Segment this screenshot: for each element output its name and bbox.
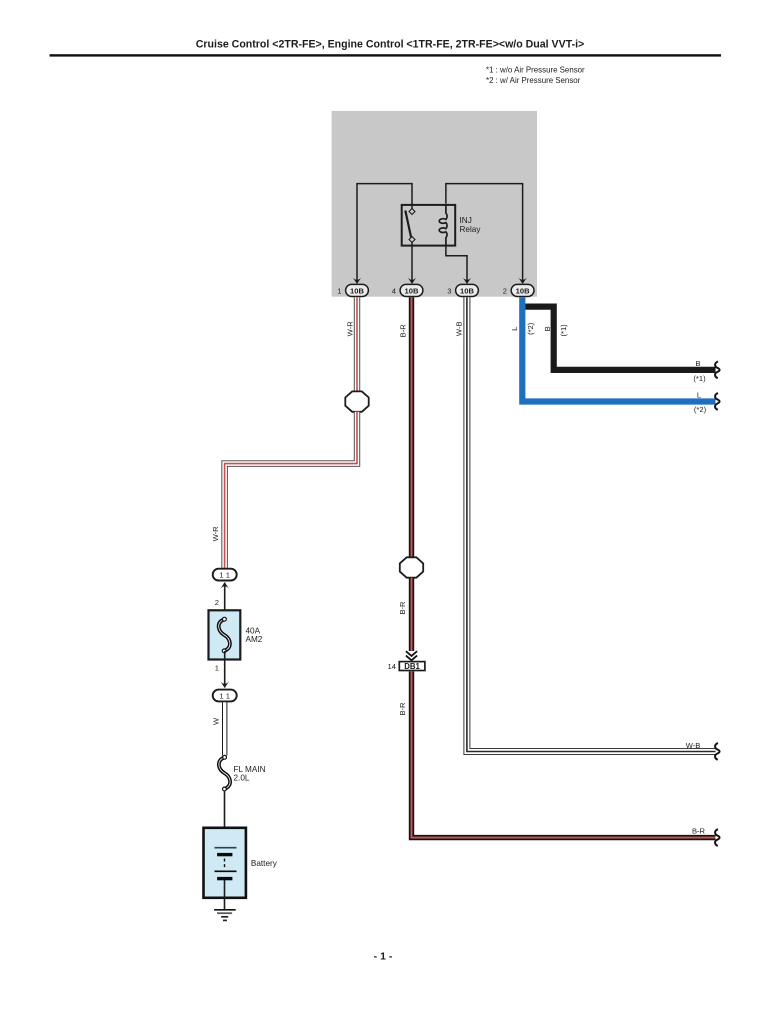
relay switch contact bottom	[409, 237, 415, 243]
arrow up into oval 11	[220, 582, 229, 589]
connector oval 11 upper	[213, 569, 237, 581]
svg-text:2: 2	[503, 286, 507, 295]
wire: top-right loop from coil to pin 2	[446, 184, 523, 283]
battery plate thick 2	[217, 877, 232, 880]
continuation squiggle B	[715, 362, 720, 379]
wire W-R upper segment	[354, 297, 360, 391]
svg-text:Relay: Relay	[460, 225, 482, 234]
relay switch contact top	[409, 209, 415, 215]
wire W-B segment to right edge	[467, 297, 716, 751]
ground symbol	[214, 910, 236, 921]
fuse element S-curve	[219, 617, 230, 653]
svg-text:*1 : w/o Air Pressure Sensor: *1 : w/o Air Pressure Sensor	[486, 66, 585, 75]
svg-text:W-B: W-B	[686, 741, 701, 750]
svg-text:1: 1	[337, 286, 341, 295]
continuation squiggle W-B	[715, 743, 720, 760]
svg-text:(*1): (*1)	[693, 374, 706, 383]
title rule	[50, 54, 722, 56]
arrow into pin3	[463, 277, 472, 284]
continuation squiggle L	[715, 393, 720, 410]
svg-text:2.0L: 2.0L	[234, 773, 250, 782]
connector oval 10B pin4	[400, 284, 423, 296]
continuation squiggle B-R	[715, 829, 720, 846]
svg-text:(*2): (*2)	[526, 322, 535, 335]
svg-text:2: 2	[215, 598, 219, 607]
arrow down into oval 11 lower	[220, 681, 229, 688]
svg-text:B-R: B-R	[398, 702, 407, 716]
svg-text:B-R: B-R	[399, 324, 408, 338]
svg-text:AM2: AM2	[246, 635, 263, 644]
svg-text:L: L	[510, 327, 519, 331]
svg-text:1 1: 1 1	[219, 692, 230, 701]
wire: switch bottom to pin 4	[411, 241, 413, 283]
splice octagon on B-R	[400, 557, 423, 577]
battery box	[204, 828, 246, 898]
splice octagon on W-R	[345, 391, 368, 411]
connector oval 10B pin1	[346, 284, 369, 296]
arrow into pin2	[518, 277, 527, 284]
wire B-R upper segment	[409, 297, 414, 557]
svg-text:B-R: B-R	[398, 601, 407, 615]
arrow into pin1	[353, 277, 362, 284]
relay block gray box	[332, 111, 537, 297]
svg-text:(*2): (*2)	[694, 405, 707, 414]
connector DB1 box	[399, 662, 425, 671]
svg-text:B: B	[543, 326, 552, 331]
svg-text:W-R: W-R	[346, 321, 355, 337]
svg-text:10B: 10B	[350, 286, 364, 295]
wire from arrow to fuse box	[224, 583, 226, 620]
fuse 40A AM2 box	[209, 610, 241, 659]
svg-text:Cruise Control <2TR-FE>, Engin: Cruise Control <2TR-FE>, Engine Control …	[196, 38, 585, 50]
svg-text:B: B	[695, 359, 700, 368]
wire L blue	[522, 297, 715, 401]
fusible link FL MAIN 2.0L	[219, 755, 230, 791]
svg-text:Battery: Battery	[251, 859, 278, 868]
svg-text:14: 14	[388, 662, 396, 671]
svg-text:DB1: DB1	[404, 662, 420, 671]
svg-text:*2 : w/ Air Pressure Sensor: *2 : w/ Air Pressure Sensor	[486, 76, 581, 85]
wire W-R lower segment with corner	[225, 412, 357, 568]
wire from fuse to arrow	[224, 651, 226, 688]
svg-text:(*1): (*1)	[559, 324, 568, 337]
svg-text:W: W	[211, 717, 220, 725]
svg-text:W-R: W-R	[211, 526, 220, 542]
battery bottom wire	[224, 880, 226, 910]
wire B black branch	[525, 307, 715, 370]
svg-text:- 1 -: - 1 -	[374, 951, 393, 963]
connector oval 10B pin2	[511, 284, 534, 296]
wire FL to battery	[224, 791, 226, 848]
svg-text:10B: 10B	[460, 286, 474, 295]
arrow into pin4	[408, 277, 417, 284]
wire: coil bottom to pin 3	[446, 247, 467, 284]
svg-text:L: L	[697, 390, 701, 399]
double chevron into DB1	[406, 651, 417, 656]
wire: top-left loop from switch to pin 1	[357, 184, 412, 283]
battery plate thick 1	[217, 853, 232, 856]
svg-text:3: 3	[447, 286, 451, 295]
svg-text:W-B: W-B	[455, 321, 464, 336]
battery plate thin 2	[215, 870, 237, 872]
wire B-R lower segment to right edge	[412, 672, 716, 838]
wire B-R mid segment	[409, 578, 414, 651]
relay switch blade	[405, 211, 411, 239]
connector oval 10B pin3	[456, 284, 479, 296]
battery dashed center	[224, 859, 226, 870]
svg-text:10B: 10B	[405, 286, 419, 295]
wire W double line	[222, 702, 227, 755]
relay coil	[439, 204, 447, 247]
svg-text:B-R: B-R	[692, 826, 706, 835]
connector oval 11 lower	[213, 690, 237, 702]
svg-text:INJ: INJ	[460, 216, 472, 225]
op: INJ relay box	[402, 205, 456, 246]
svg-text:4: 4	[392, 286, 396, 295]
svg-text:1 1: 1 1	[219, 571, 230, 580]
svg-text:10B: 10B	[516, 286, 530, 295]
battery plate thin 1	[215, 847, 237, 849]
svg-text:1: 1	[215, 663, 219, 672]
